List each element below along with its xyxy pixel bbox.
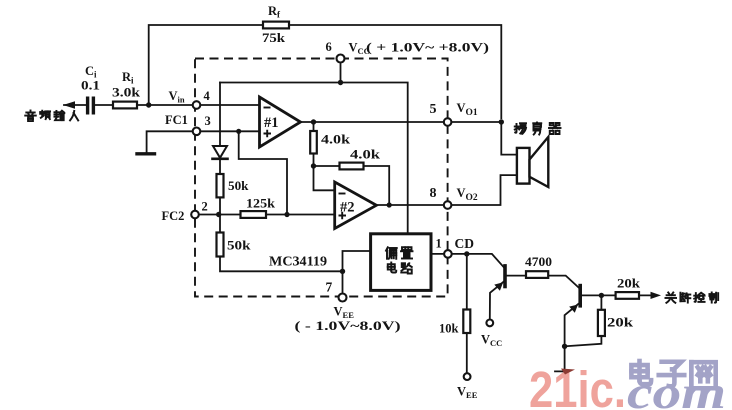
svg-text:20k: 20k xyxy=(617,277,640,291)
svg-text:125k: 125k xyxy=(246,197,275,211)
svg-text:VCC: VCC xyxy=(481,333,502,349)
svg-text:Ci: Ci xyxy=(85,64,97,80)
svg-text:CD: CD xyxy=(455,236,475,251)
svg-text:4: 4 xyxy=(204,89,211,103)
svg-text:VO2: VO2 xyxy=(457,186,478,203)
svg-text:20k: 20k xyxy=(607,316,633,330)
svg-text:MC34119: MC34119 xyxy=(269,254,327,269)
svg-text:Vin: Vin xyxy=(169,89,185,105)
svg-text:75k: 75k xyxy=(262,31,285,45)
svg-text:( + 1.0V~ +8.0V): ( + 1.0V~ +8.0V) xyxy=(366,41,489,55)
svg-text:50k: 50k xyxy=(227,239,251,253)
svg-text:50k: 50k xyxy=(228,179,249,193)
svg-text:com: com xyxy=(627,367,726,410)
svg-text:0.1: 0.1 xyxy=(81,79,100,93)
svg-text:Rf: Rf xyxy=(268,4,281,20)
svg-text:Ri: Ri xyxy=(122,70,134,86)
svg-text:4700: 4700 xyxy=(525,255,552,269)
svg-text:10k: 10k xyxy=(439,321,459,336)
svg-text:VEE: VEE xyxy=(334,305,355,321)
svg-text:#2: #2 xyxy=(340,200,355,216)
svg-text:21ic.: 21ic. xyxy=(529,361,626,410)
svg-text:4.0k: 4.0k xyxy=(350,148,380,162)
svg-text:3: 3 xyxy=(205,114,211,128)
svg-text:7: 7 xyxy=(326,280,333,295)
svg-text:8: 8 xyxy=(430,186,437,201)
svg-text:VO1: VO1 xyxy=(457,101,478,118)
svg-text:#1: #1 xyxy=(264,115,279,131)
svg-text:( - 1.0V~8.0V): ( - 1.0V~8.0V) xyxy=(295,319,401,333)
svg-text:6: 6 xyxy=(326,40,332,54)
svg-text:4.0k: 4.0k xyxy=(321,133,350,147)
svg-text:FC2: FC2 xyxy=(162,209,185,223)
svg-text:1: 1 xyxy=(436,237,442,251)
svg-text:2: 2 xyxy=(202,200,208,214)
svg-text:VEE: VEE xyxy=(457,385,478,401)
svg-text:3.0k: 3.0k xyxy=(112,86,140,100)
svg-text:5: 5 xyxy=(430,102,437,117)
svg-text:FC1: FC1 xyxy=(165,113,188,127)
